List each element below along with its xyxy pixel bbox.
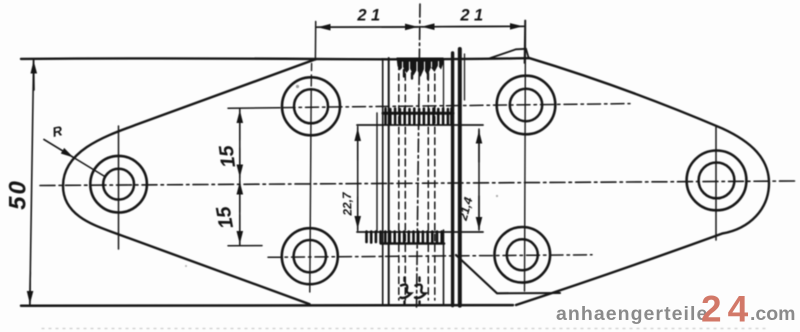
bushing upper hatch bbox=[386, 109, 452, 125]
right plate outline bbox=[516, 58, 769, 305]
top extension/edge line bbox=[21, 58, 529, 59]
barrel left wall bbox=[382, 60, 384, 304]
svg-text:anhaengerteile: anhaengerteile bbox=[556, 303, 708, 325]
dimension 21,4 bbox=[478, 129, 480, 230]
socket lower hatch bbox=[367, 232, 442, 244]
hole top-right bbox=[497, 21, 556, 292]
bottom scan speckle row bbox=[42, 328, 770, 330]
socket bottom line bbox=[357, 231, 483, 233]
hole left-end bbox=[90, 126, 147, 249]
scan speck near top-left hole bbox=[296, 85, 299, 88]
barrel right wall thick bbox=[451, 53, 454, 306]
barrel top hatch bbox=[397, 58, 444, 80]
hole right-end bbox=[687, 127, 747, 240]
bushing top line bbox=[383, 112, 453, 115]
pin hidden line 2 bbox=[404, 63, 406, 300]
left plate outline bbox=[63, 59, 316, 304]
svg-text:.com: .com bbox=[750, 303, 796, 325]
scan speck near socket bbox=[496, 195, 498, 197]
dimension 15 upper bbox=[228, 108, 280, 246]
dimension 50 left bbox=[30, 59, 34, 305]
hole bottom-right bbox=[495, 227, 551, 283]
svg-text:24: 24 bbox=[701, 289, 754, 330]
bushing bottom line bbox=[381, 242, 444, 245]
barrel socket left line bbox=[376, 113, 378, 232]
dimension 22,7 bbox=[357, 127, 359, 231]
barrel inner wall right bbox=[443, 230, 445, 304]
socket top line bbox=[357, 124, 483, 126]
radius leader R bbox=[44, 140, 104, 177]
dimension 21 left segment bbox=[315, 21, 525, 64]
hole top-left bbox=[282, 64, 340, 293]
pin hidden line 4 bbox=[434, 63, 436, 300]
barrel right wall thick outer bbox=[458, 49, 462, 306]
pin hidden line 3 bbox=[427, 63, 429, 300]
hole bottom-left bbox=[282, 228, 338, 284]
barrel right top stub bbox=[464, 54, 466, 100]
barrel bottom squiggle 33 bbox=[401, 278, 426, 304]
barrel left wall inner bbox=[388, 58, 390, 304]
bottom edge line bbox=[21, 304, 513, 307]
main horizontal centerline bbox=[40, 181, 795, 186]
scan speck lower left bbox=[185, 265, 187, 267]
right plate lower edge near barrel bbox=[456, 255, 560, 293]
top edge wedge (right leaf) bbox=[489, 49, 529, 59]
bottom holes centerline bbox=[268, 255, 592, 257]
top holes centerline bbox=[282, 104, 630, 108]
pin hidden line 1 bbox=[398, 63, 400, 300]
pin centerline vertical bbox=[417, 4, 421, 307]
barrel inner wall right top bbox=[443, 60, 445, 113]
